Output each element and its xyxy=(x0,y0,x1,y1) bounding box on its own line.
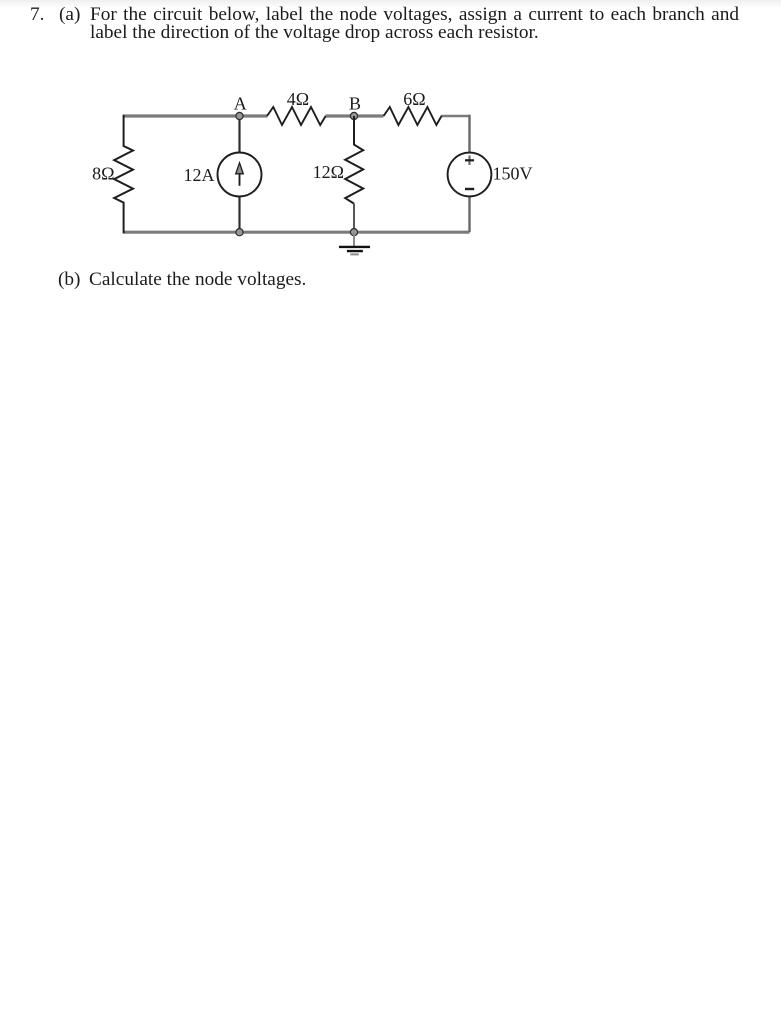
wire: current source lower lead xyxy=(238,196,240,232)
resistor R 8-ohm with left branch leads xyxy=(114,115,133,234)
current source I1 12A circle xyxy=(218,153,262,197)
node dot bottom under 12-ohm (ground node) xyxy=(350,229,357,236)
ground bar 1 xyxy=(339,246,370,248)
problem number 7. xyxy=(30,4,44,26)
svg-text:4Ω: 4Ω xyxy=(287,89,309,109)
resistor R 12-ohm with leads xyxy=(345,116,363,204)
node dot bottom under current source xyxy=(236,229,243,236)
paragraph line 2 xyxy=(90,22,539,44)
node B dot xyxy=(350,112,357,119)
svg-text:12A: 12A xyxy=(184,165,215,185)
ground bar 2 xyxy=(347,250,363,252)
wire: top bus middle segment (4-ohm to 6-ohm through node B) xyxy=(326,114,384,117)
wire: bottom bus xyxy=(124,231,470,234)
voltage source minus sign xyxy=(465,188,474,190)
svg-text:150V: 150V xyxy=(493,163,533,183)
svg-text:6Ω: 6Ω xyxy=(403,89,425,109)
paragraph line 1 xyxy=(90,4,739,26)
voltage source plus sign xyxy=(468,156,470,166)
svg-text:A: A xyxy=(234,94,247,114)
current source arrow xyxy=(239,173,241,186)
wire: 12-ohm lower lead to bottom bus xyxy=(353,204,355,233)
resistor R 6-ohm xyxy=(384,107,442,125)
svg-text:B: B xyxy=(349,94,361,114)
wire: right branch upper (corner down to voltage source) xyxy=(468,116,469,153)
ground bar 3 xyxy=(350,253,359,255)
ground stem xyxy=(353,233,355,246)
part label (a) xyxy=(59,4,80,26)
wire: right branch lower (voltage source to bottom bus) xyxy=(468,197,470,233)
svg-text:8Ω: 8Ω xyxy=(92,163,114,183)
node A dot xyxy=(236,112,243,119)
resistor R 4-ohm xyxy=(267,107,326,125)
wire: top bus left segment (corner to 4-ohm resistor) xyxy=(124,114,268,117)
wire: current source upper lead xyxy=(238,116,240,153)
part label (b) with text xyxy=(58,269,80,291)
svg-text:12Ω: 12Ω xyxy=(313,162,344,182)
wire: top bus right segment (6-ohm to top-right corner) xyxy=(441,115,470,118)
voltage source V1 150V circle xyxy=(448,153,492,197)
